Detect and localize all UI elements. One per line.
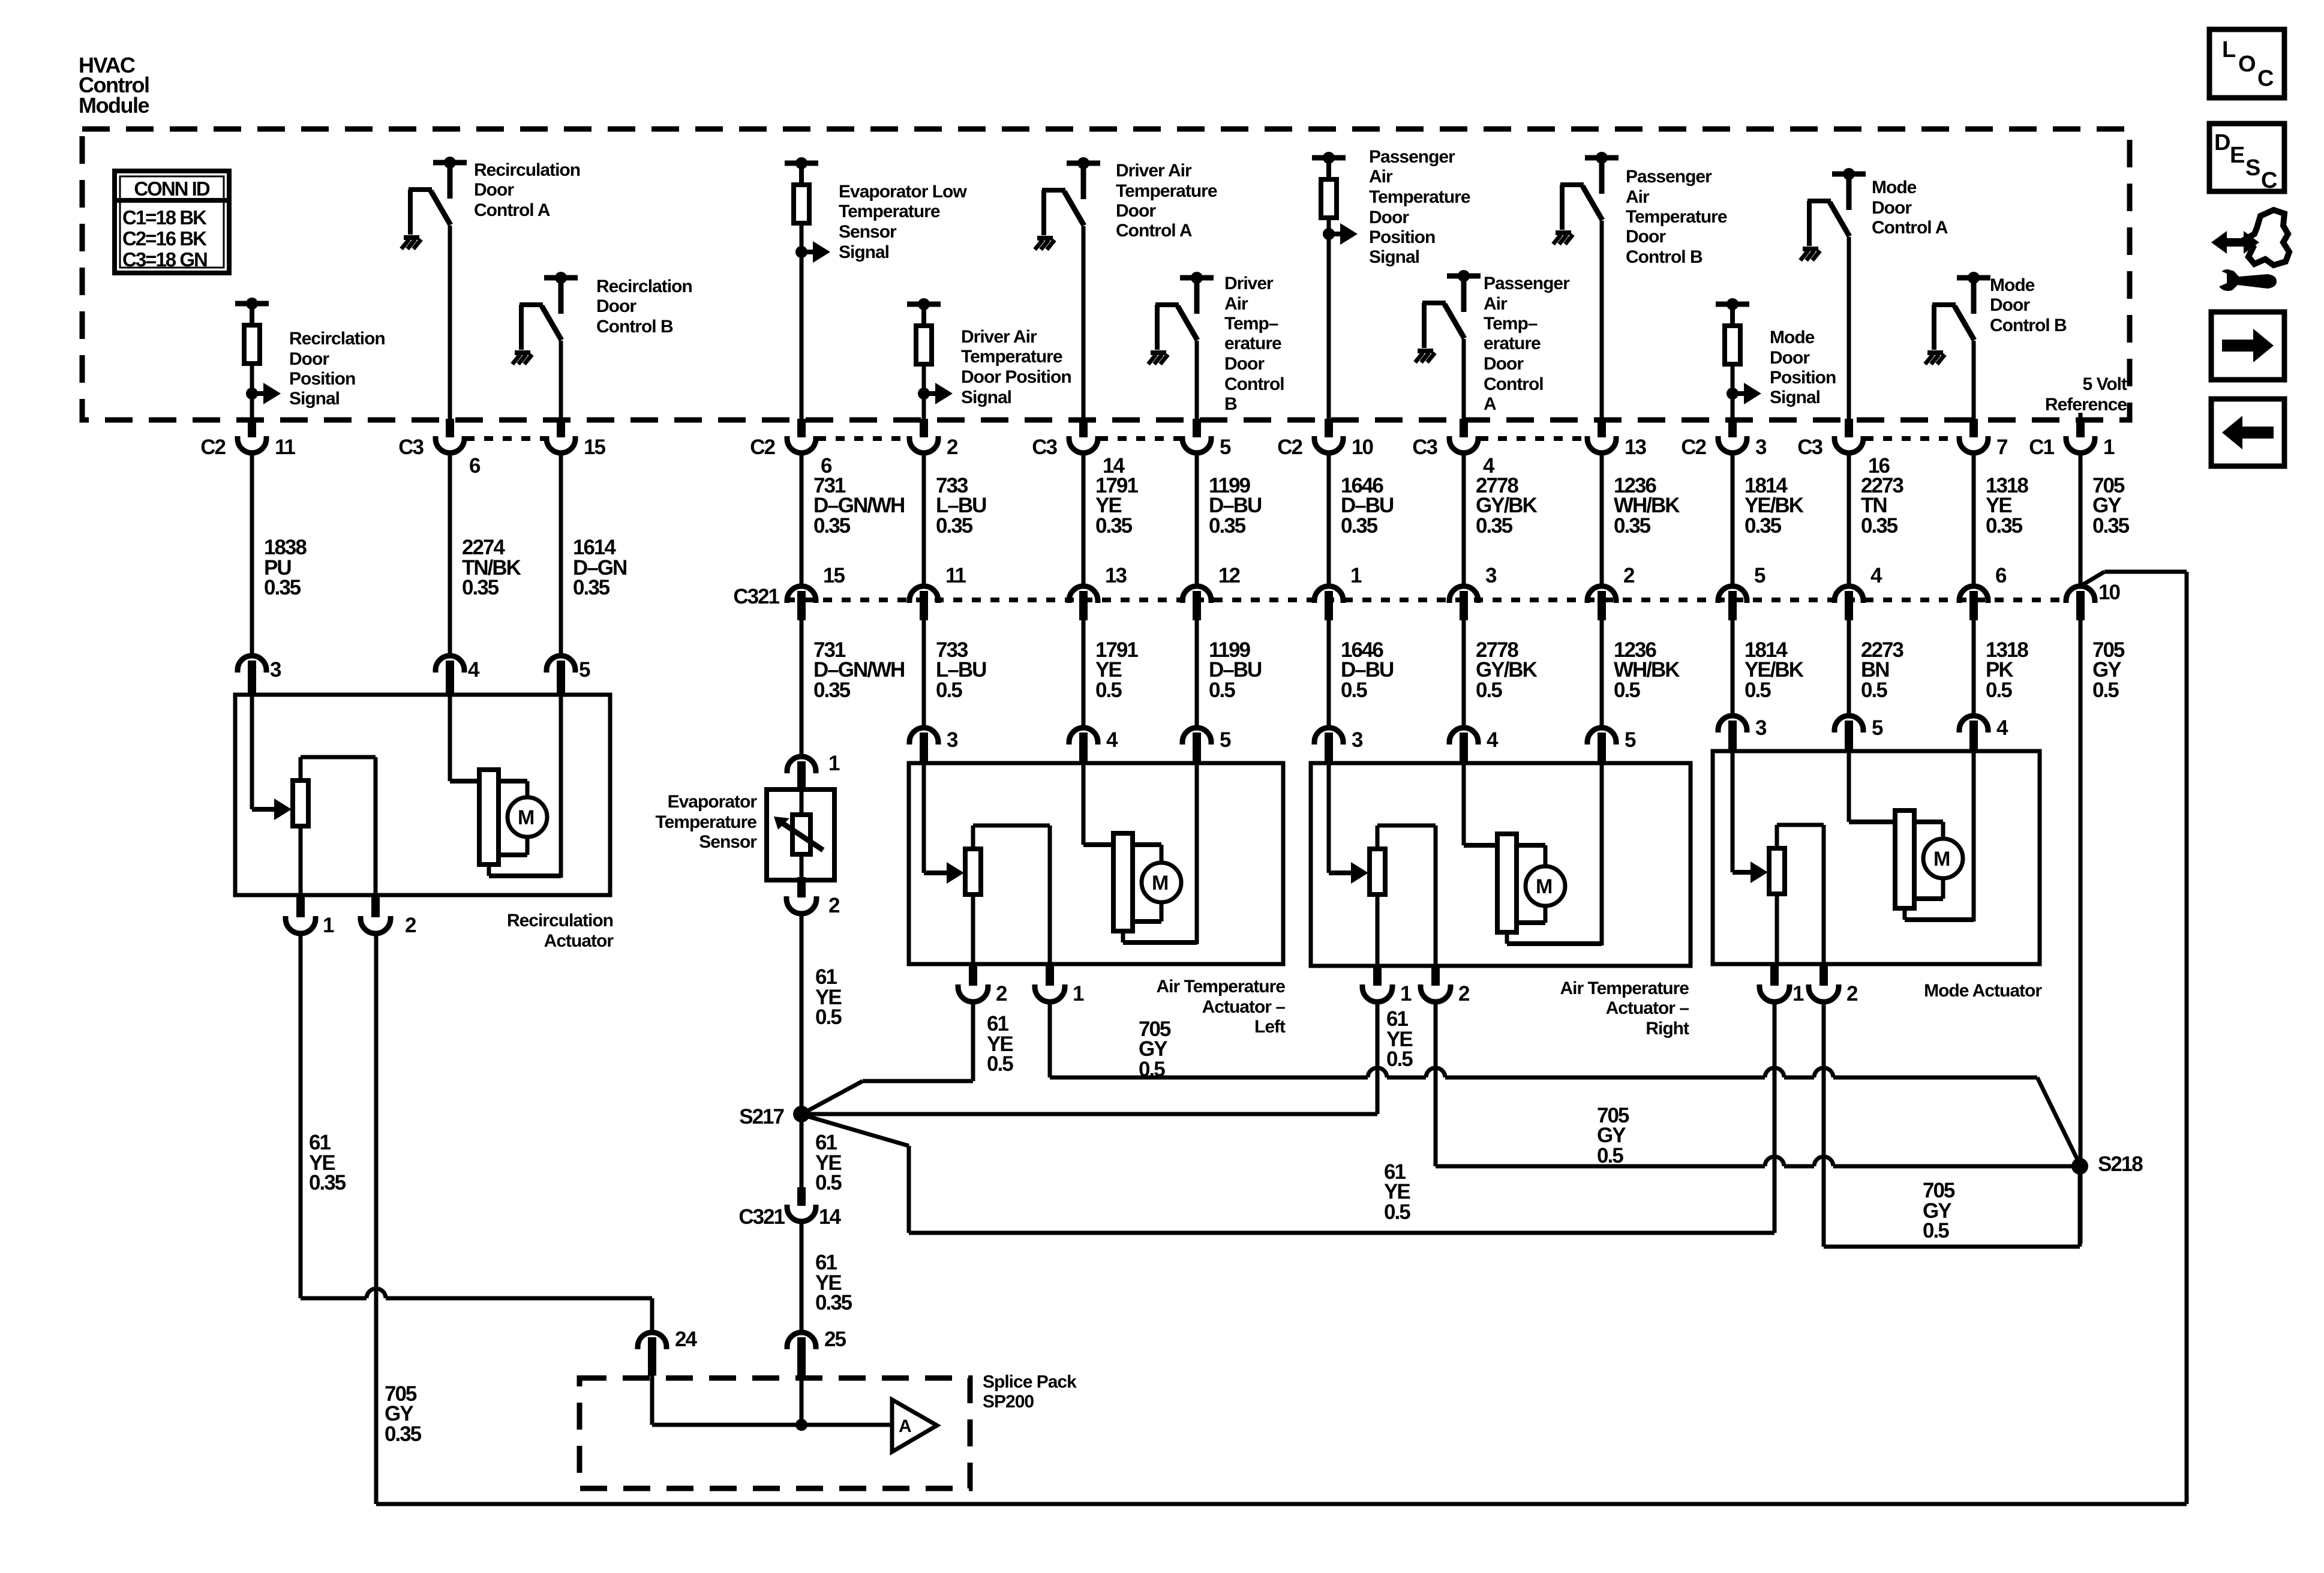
wire recirc pin1 to splice pack pin 24 (61 YE) with hop bbox=[301, 933, 652, 1334]
wire label 705 GY 0.5 (mode pin2) bbox=[1923, 1179, 1955, 1242]
wire label 1199 D–BU 0.5 (c7 lower) bbox=[1209, 638, 1262, 702]
C321 pin 13 (c6) bbox=[1069, 564, 1127, 620]
wire label 2274 TN/BK 0.35 (c2 upper) bbox=[462, 536, 521, 599]
connector pin C1 1 (row1 c14) bbox=[2029, 419, 2115, 459]
wire c11 to C321 bbox=[1731, 453, 1735, 587]
svg-text:Door: Door bbox=[1369, 208, 1409, 227]
wire c8 to C321 bbox=[1327, 453, 1331, 587]
svg-text:0.35: 0.35 bbox=[1614, 514, 1651, 538]
C321 pin 15 (c4) bbox=[787, 564, 845, 620]
mode actuator bottom pin 2 bbox=[1809, 965, 1858, 1005]
connector pin 2 (row1 c5) bbox=[909, 419, 958, 459]
svg-text:Control: Control bbox=[1484, 374, 1544, 394]
mode actuator pin 3 (c11) bbox=[1718, 716, 1767, 753]
wire c10 C321 to actuator pin bbox=[1600, 620, 1604, 729]
wire label 2778 GY/BK 0.35 (c9 upper) bbox=[1476, 474, 1538, 538]
svg-text:Mode: Mode bbox=[1872, 178, 1917, 197]
wire c8 C321 to actuator pin bbox=[1327, 620, 1331, 729]
svg-text:Door: Door bbox=[1626, 227, 1666, 247]
svg-text:Air: Air bbox=[1369, 167, 1393, 187]
wire c11 resistor to module edge bbox=[1731, 394, 1735, 422]
svg-text:Signal: Signal bbox=[839, 242, 889, 262]
svg-text:C: C bbox=[2257, 66, 2274, 91]
wire label 2273 BN 0.5 (c12 lower) bbox=[1861, 638, 1903, 702]
connector pin 15 (row1 c3) bbox=[547, 419, 605, 459]
wire label 731 D–GN/WH 0.35 (c4 upper) bbox=[813, 474, 904, 538]
svg-text:Temp–: Temp– bbox=[1484, 314, 1538, 334]
svg-text:Control B: Control B bbox=[1626, 247, 1703, 267]
svg-text:12: 12 bbox=[1218, 564, 1240, 587]
svg-text:0.5: 0.5 bbox=[1209, 679, 1235, 702]
evaporator sensor pin 2 bbox=[786, 877, 840, 917]
svg-text:2: 2 bbox=[1846, 982, 1858, 1005]
svg-text:Door: Door bbox=[596, 296, 636, 316]
svg-text:Mode Actuator: Mode Actuator bbox=[1924, 981, 2042, 1001]
svg-text:C321: C321 bbox=[738, 1205, 785, 1229]
svg-text:5: 5 bbox=[1754, 564, 1765, 587]
svg-text:24: 24 bbox=[675, 1328, 697, 1351]
C321 pin 12 (c7) bbox=[1182, 564, 1240, 620]
svg-text:E: E bbox=[2230, 143, 2245, 168]
svg-text:0.5: 0.5 bbox=[1476, 679, 1502, 702]
evaporator sensor pin 1 bbox=[787, 752, 840, 792]
switch: Passenger Air Temperature Door Control A driver (col9) bbox=[1415, 270, 1481, 362]
resistor: evaporator low temperature sensor signal (col4) bbox=[785, 157, 830, 263]
svg-text:Module: Module bbox=[79, 93, 149, 118]
svg-text:0.5: 0.5 bbox=[815, 1171, 842, 1194]
svg-text:4: 4 bbox=[1996, 716, 2008, 740]
svg-text:Control A: Control A bbox=[474, 200, 550, 220]
svg-text:SP200: SP200 bbox=[983, 1392, 1034, 1412]
svg-text:3: 3 bbox=[1755, 716, 1767, 740]
svg-text:0.35: 0.35 bbox=[1861, 514, 1898, 538]
splice S217 bbox=[739, 1105, 810, 1128]
svg-text:C3: C3 bbox=[1032, 436, 1057, 459]
label Air Temperature Actuator - Left bbox=[1156, 977, 1286, 1037]
svg-text:Air: Air bbox=[1224, 294, 1248, 314]
svg-text:erature: erature bbox=[1224, 334, 1281, 353]
wire c4 C321 to evaporator sensor pin 1 bbox=[800, 620, 804, 758]
svg-text:0.35: 0.35 bbox=[573, 576, 610, 599]
air temperature actuator pin 4 (c9) bbox=[1449, 728, 1499, 765]
air temperature actuator pin 5 (c10) bbox=[1587, 728, 1636, 765]
wire c5 C321 to actuator pin bbox=[922, 620, 926, 729]
svg-text:0.35: 0.35 bbox=[385, 1422, 422, 1446]
svg-text:0.35: 0.35 bbox=[815, 1291, 852, 1314]
wire c3 switch to module edge bbox=[559, 341, 563, 422]
connector pin C3 4 (row1 c9) bbox=[1412, 419, 1495, 478]
dashed connector link c6-c7 bbox=[1099, 436, 1181, 441]
Recirculation Actuator box and interior bbox=[235, 695, 610, 895]
wire label 61 YE 0.5 (evap to S217) bbox=[815, 965, 842, 1029]
svg-text:C2: C2 bbox=[200, 436, 226, 459]
Air Temperature Actuator Right box and interior bbox=[1311, 763, 1691, 966]
svg-text:2: 2 bbox=[996, 982, 1007, 1005]
C321 pin 2 (c10) bbox=[1587, 564, 1635, 620]
recirculation actuator pin 3 bbox=[238, 656, 281, 696]
label Mode Door Position Signal bbox=[1770, 328, 1836, 407]
svg-text:C2: C2 bbox=[1277, 436, 1302, 459]
wire label 1814 YE/BK 0.5 (c11 lower) bbox=[1744, 638, 1804, 702]
Air Temperature Actuator Left box and interior bbox=[909, 763, 1283, 964]
svg-text:Control A: Control A bbox=[1872, 218, 1948, 238]
label Evaporator Low Temperature Sensor Signal bbox=[839, 182, 967, 262]
svg-text:Driver Air: Driver Air bbox=[1116, 161, 1192, 181]
svg-text:4: 4 bbox=[1487, 728, 1499, 752]
wire c8 resistor to module edge bbox=[1327, 234, 1331, 422]
svg-text:3: 3 bbox=[947, 728, 958, 752]
svg-text:Signal: Signal bbox=[1770, 388, 1820, 407]
wire S217 down to C321-14 bbox=[800, 1114, 804, 1189]
svg-text:M: M bbox=[1536, 875, 1553, 898]
air temp actuator right bottom pin 1 bbox=[1362, 965, 1412, 1005]
wire c2 switch to module edge bbox=[448, 226, 452, 422]
svg-text:Temperature: Temperature bbox=[839, 202, 940, 221]
C321 pin 3 (c9) bbox=[1449, 564, 1497, 620]
icon wrench and arrows bbox=[2211, 210, 2289, 291]
svg-text:0.5: 0.5 bbox=[936, 679, 962, 702]
wire label 61 YE 0.5 (left pin2) bbox=[987, 1012, 1013, 1076]
svg-text:10: 10 bbox=[1352, 436, 1373, 459]
CONN ID table bbox=[115, 171, 229, 273]
svg-text:7: 7 bbox=[1996, 436, 2007, 459]
Mode Actuator box and interior bbox=[1713, 751, 2040, 964]
svg-text:Control B: Control B bbox=[596, 317, 673, 337]
svg-text:2: 2 bbox=[947, 436, 958, 459]
svg-text:Door: Door bbox=[1484, 354, 1524, 374]
svg-text:0.5: 0.5 bbox=[2092, 679, 2119, 702]
svg-text:Passenger: Passenger bbox=[1626, 167, 1712, 187]
svg-text:1: 1 bbox=[1350, 564, 1362, 587]
splice pack output triangle A bbox=[892, 1400, 937, 1452]
wire c7 switch to module edge bbox=[1195, 341, 1199, 422]
svg-text:Evaporator Low: Evaporator Low bbox=[839, 182, 967, 202]
recirculation actuator bottom pin 2 bbox=[361, 897, 416, 937]
wire label 1646 D–BU 0.5 (c8 lower) bbox=[1341, 638, 1394, 702]
svg-text:Door: Door bbox=[1872, 198, 1912, 218]
bus 705 GY from left pin1 to S218 with hops bbox=[1050, 1068, 2080, 1164]
Evaporator Temperature Sensor box bbox=[767, 789, 834, 880]
svg-text:Door: Door bbox=[289, 349, 329, 369]
svg-text:Actuator –: Actuator – bbox=[1606, 998, 1689, 1018]
svg-text:15: 15 bbox=[823, 564, 845, 587]
wire label 61 YE 0.5 (S217 down) bbox=[815, 1131, 842, 1194]
splice pack internal wires bbox=[652, 1374, 892, 1431]
svg-text:Air Temperature: Air Temperature bbox=[1156, 977, 1285, 996]
air temperature actuator pin 4 (c6) bbox=[1069, 728, 1118, 765]
svg-text:13: 13 bbox=[1625, 436, 1646, 459]
wire c6 to C321 bbox=[1082, 453, 1086, 587]
svg-text:0.35: 0.35 bbox=[1986, 514, 2023, 538]
wire c5 to C321 bbox=[922, 453, 926, 587]
switch: Driver Air Temperature Door Control A driver (col6) bbox=[1035, 157, 1100, 250]
svg-text:2: 2 bbox=[405, 914, 416, 937]
svg-text:Mode: Mode bbox=[1990, 275, 2035, 295]
connector pin 7 (row1 c13) bbox=[1959, 419, 2007, 459]
wire c5 resistor to module edge bbox=[922, 394, 926, 422]
svg-text:11: 11 bbox=[275, 436, 296, 459]
svg-text:11: 11 bbox=[945, 564, 966, 587]
svg-text:Recirculation: Recirculation bbox=[474, 160, 580, 180]
wire c13 C321 to mode actuator pin bbox=[1972, 620, 1976, 717]
svg-text:15: 15 bbox=[584, 436, 605, 459]
svg-text:Recirculation: Recirculation bbox=[507, 911, 613, 930]
svg-text:0.5: 0.5 bbox=[1095, 679, 1122, 702]
svg-text:6: 6 bbox=[1995, 564, 2007, 587]
dashed connector link c9-c10 bbox=[1479, 436, 1586, 441]
wire recirc pin2 to right riser (705 GY) bbox=[376, 572, 2187, 1504]
svg-text:C3: C3 bbox=[1797, 436, 1822, 459]
svg-text:Position: Position bbox=[1770, 368, 1836, 388]
wire label 61 YE 0.5 (right pin1) bbox=[1386, 1007, 1413, 1071]
wire c9 to C321 bbox=[1462, 453, 1466, 587]
air temperature actuator pin 3 (c5) bbox=[909, 728, 958, 765]
wire label 1791 YE 0.35 (c6 upper) bbox=[1095, 474, 1138, 538]
dashed connector link c4-c5 bbox=[817, 436, 908, 441]
svg-text:M: M bbox=[1933, 848, 1950, 870]
svg-text:3: 3 bbox=[1755, 436, 1767, 459]
svg-text:3: 3 bbox=[1352, 728, 1363, 752]
svg-text:1: 1 bbox=[2103, 436, 2115, 459]
wire c14 5V ref to module edge bbox=[2079, 413, 2083, 422]
svg-text:Recirclation: Recirclation bbox=[289, 329, 385, 349]
svg-text:5: 5 bbox=[1220, 728, 1231, 752]
wire c3 to recirculation actuator pin bbox=[559, 453, 563, 657]
switch: Mode Door Control A driver (col12) bbox=[1800, 168, 1866, 260]
switch: Driver Air Temperature Door Control B driver (col7) bbox=[1148, 272, 1214, 364]
wire label 1791 YE 0.5 (c6 lower) bbox=[1095, 638, 1138, 702]
label 5 Volt Reference bbox=[2045, 374, 2127, 415]
splice pack pin 24 bbox=[638, 1328, 697, 1376]
svg-text:Mode: Mode bbox=[1770, 328, 1815, 347]
wire mode pin2 to S218 (705 GY) bbox=[1824, 1001, 2080, 1247]
svg-text:Sensor: Sensor bbox=[699, 832, 757, 852]
wire label 2778 GY/BK 0.5 (c9 lower) bbox=[1476, 638, 1538, 702]
svg-text:O: O bbox=[2238, 52, 2256, 77]
svg-text:S: S bbox=[2245, 155, 2260, 181]
wire S217 diagonal to 61 YE bus to mode pin1 bbox=[804, 1001, 1774, 1233]
wire c7 C321 to actuator pin bbox=[1195, 620, 1199, 729]
svg-text:0.35: 0.35 bbox=[309, 1171, 346, 1194]
wire c4 resistor to module edge bbox=[800, 252, 804, 422]
svg-text:1: 1 bbox=[1073, 982, 1084, 1005]
label Passenger Air Temperature Door Control A bbox=[1484, 274, 1570, 414]
svg-text:4: 4 bbox=[1106, 728, 1118, 752]
svg-text:5 Volt: 5 Volt bbox=[2083, 374, 2127, 394]
icon box arrow left bbox=[2211, 399, 2284, 466]
wire c11 C321 to mode actuator pin bbox=[1731, 620, 1735, 717]
label Recirclation Door Position Signal bbox=[289, 329, 385, 409]
wire label 1814 YE/BK 0.35 (c11 upper) bbox=[1744, 474, 1804, 538]
C321 pin 1 (c8) bbox=[1314, 564, 1362, 620]
connector pin 13 (row1 c10) bbox=[1587, 419, 1646, 459]
svg-text:Air Temperature: Air Temperature bbox=[1560, 978, 1689, 998]
label Air Temperature Actuator - Right bbox=[1560, 978, 1689, 1038]
svg-text:Signal: Signal bbox=[961, 388, 1011, 407]
wire left actuator pin2 to S217 bus (61 YE) bbox=[804, 1001, 973, 1113]
switch: Recirculation Door Control A driver (col2) bbox=[401, 157, 467, 249]
svg-text:Temperature: Temperature bbox=[1626, 207, 1727, 227]
svg-text:0.5: 0.5 bbox=[1861, 679, 1887, 702]
wire label 705 GY 0.5 (left pin1) bbox=[1139, 1017, 1171, 1081]
label Recirclation Door Control B bbox=[596, 277, 692, 337]
icon box arrow right bbox=[2211, 312, 2284, 380]
wire label 61 YE 0.35 (recirc pin1) bbox=[309, 1131, 346, 1194]
svg-text:Signal: Signal bbox=[289, 389, 340, 409]
svg-text:1: 1 bbox=[323, 914, 334, 937]
svg-text:4: 4 bbox=[1870, 564, 1882, 587]
wire label 61 YE 0.35 (below C321-14) bbox=[815, 1251, 852, 1314]
wire c10 to C321 bbox=[1600, 453, 1604, 587]
HVAC Control Module dashed box bbox=[82, 129, 2130, 420]
air temp actuator right bottom pin 2 bbox=[1421, 965, 1470, 1005]
svg-text:4: 4 bbox=[468, 658, 480, 682]
svg-text:C3=18 GN: C3=18 GN bbox=[122, 248, 207, 271]
svg-text:L: L bbox=[2222, 37, 2236, 62]
label Mode Actuator bbox=[1924, 981, 2042, 1001]
switch: Passenger Air Temperature Door Control B driver (col10) bbox=[1553, 152, 1619, 244]
label Evaporator Temperature Sensor bbox=[655, 792, 757, 852]
svg-text:Door: Door bbox=[1990, 295, 2030, 315]
wire label 705 GY 0.35 (c14 upper) bbox=[2092, 474, 2130, 538]
svg-text:C321: C321 bbox=[733, 585, 779, 608]
C321 pin 10 (c14) bbox=[2066, 581, 2120, 620]
svg-text:0.35: 0.35 bbox=[1341, 514, 1378, 538]
recirculation actuator pin 5 bbox=[547, 656, 590, 696]
wire c13 switch to module edge bbox=[1972, 341, 1976, 422]
svg-text:0.5: 0.5 bbox=[1923, 1219, 1949, 1242]
mode actuator pin 4 (c13) bbox=[1959, 716, 2008, 753]
svg-text:C2=16 BK: C2=16 BK bbox=[122, 227, 207, 250]
svg-text:0.5: 0.5 bbox=[987, 1052, 1013, 1076]
wire c6 C321 to actuator pin bbox=[1082, 620, 1086, 729]
svg-text:Driver Air: Driver Air bbox=[961, 327, 1037, 347]
svg-text:C3: C3 bbox=[1412, 436, 1437, 459]
HVAC Control Module label bbox=[79, 53, 149, 118]
svg-text:6: 6 bbox=[469, 454, 481, 478]
svg-text:14: 14 bbox=[819, 1205, 841, 1229]
svg-text:Splice Pack: Splice Pack bbox=[983, 1372, 1077, 1392]
switch: Mode Door Control B driver (col13) bbox=[1925, 272, 1990, 364]
svg-text:S218: S218 bbox=[2098, 1152, 2143, 1176]
svg-text:0.35: 0.35 bbox=[462, 576, 499, 599]
resistor: driver air temperature door position signal (col5) bbox=[907, 298, 953, 404]
svg-text:2: 2 bbox=[828, 894, 840, 917]
svg-text:0.35: 0.35 bbox=[2092, 514, 2130, 538]
svg-text:Actuator: Actuator bbox=[544, 931, 614, 951]
label Driver Air Temperature Door Control B bbox=[1224, 274, 1284, 414]
svg-text:CONN ID: CONN ID bbox=[134, 178, 210, 200]
label Driver Air Temperature Door Control A bbox=[1116, 161, 1217, 241]
wire c4 to C321 bbox=[800, 453, 804, 587]
wire label 731 D–GN/WH 0.35 (c4 lower) bbox=[813, 638, 904, 702]
C321 pin 14 bbox=[738, 1187, 841, 1229]
splice S218 bbox=[2071, 1152, 2143, 1176]
svg-text:C2: C2 bbox=[750, 436, 775, 459]
svg-text:Temp–: Temp– bbox=[1224, 314, 1278, 334]
connector pin C2 3 (row1 c11) bbox=[1681, 419, 1767, 459]
C321 pin 11 (c5) bbox=[909, 564, 966, 620]
svg-text:0.35: 0.35 bbox=[813, 679, 851, 702]
svg-text:Signal: Signal bbox=[1369, 247, 1419, 267]
recirculation actuator bottom pin 1 bbox=[286, 897, 334, 937]
svg-text:0.35: 0.35 bbox=[264, 576, 301, 599]
wire label 1614 D–GN 0.35 (c3 upper) bbox=[573, 536, 626, 599]
wire c10 switch to module edge bbox=[1600, 221, 1604, 422]
connector pin C2 11 (row1 c1) bbox=[200, 419, 295, 459]
svg-text:Evaporator: Evaporator bbox=[668, 792, 758, 812]
svg-text:Passenger: Passenger bbox=[1369, 147, 1455, 167]
label Recirculation Actuator bbox=[507, 911, 614, 951]
svg-text:S217: S217 bbox=[739, 1105, 783, 1128]
wire right actuator pin2 to S218 (705 GY) with hops bbox=[1436, 1001, 2080, 1166]
svg-text:Air: Air bbox=[1626, 187, 1650, 207]
C321 label bbox=[733, 585, 779, 608]
svg-text:Door: Door bbox=[1770, 348, 1810, 368]
resistor: passenger air temperature door position signal (col8) bbox=[1312, 152, 1358, 245]
air temp actuator left bottom pin 2 bbox=[958, 965, 1007, 1005]
C321 pin 5 (c11) bbox=[1718, 564, 1765, 620]
svg-text:C1=18 BK: C1=18 BK bbox=[122, 206, 207, 229]
svg-text:Door: Door bbox=[474, 180, 514, 200]
svg-text:Door: Door bbox=[1116, 201, 1156, 221]
svg-text:0.5: 0.5 bbox=[815, 1005, 842, 1029]
mode actuator bottom pin 1 bbox=[1759, 965, 1804, 1005]
Splice Pack SP200 dashed box bbox=[580, 1378, 970, 1488]
svg-text:0.35: 0.35 bbox=[1744, 514, 1782, 538]
wire c1 resistor to module edge bbox=[250, 394, 254, 422]
connector pin C3 14 (row1 c6) bbox=[1032, 419, 1125, 478]
svg-text:0.5: 0.5 bbox=[1986, 679, 2012, 702]
wire c1 to recirculation actuator pin bbox=[250, 453, 254, 657]
svg-text:0.35: 0.35 bbox=[813, 514, 851, 538]
dashed connector link c2-c3 bbox=[466, 436, 545, 441]
svg-text:Air: Air bbox=[1484, 294, 1508, 314]
wire c9 switch to module edge bbox=[1462, 339, 1466, 422]
svg-text:0.5: 0.5 bbox=[1597, 1144, 1623, 1167]
svg-text:M: M bbox=[1152, 872, 1169, 894]
wire label 1646 D–BU 0.35 (c8 upper) bbox=[1341, 474, 1394, 538]
svg-text:C3: C3 bbox=[398, 436, 424, 459]
wire c14 C321-10 down to S218 bbox=[2079, 620, 2083, 1244]
wire c6 switch to module edge bbox=[1082, 226, 1086, 422]
svg-text:0.5: 0.5 bbox=[1386, 1047, 1413, 1071]
C321 dashed line bbox=[786, 598, 2065, 602]
wire c12 to C321 bbox=[1847, 453, 1851, 587]
wire c7 to C321 bbox=[1195, 453, 1199, 587]
wire c12 switch to module edge bbox=[1847, 237, 1851, 422]
svg-text:C: C bbox=[2261, 168, 2277, 193]
connector pin C2 10 (row1 c8) bbox=[1277, 419, 1373, 459]
wire label 1318 PK 0.5 (c13 lower) bbox=[1986, 638, 2028, 702]
svg-text:Reference: Reference bbox=[2045, 395, 2127, 415]
splice pack pin 25 bbox=[787, 1328, 846, 1376]
switch: Recirclation Door Control B driver (col3) bbox=[512, 272, 578, 364]
air temperature actuator pin 3 (c8) bbox=[1314, 728, 1363, 765]
svg-text:2: 2 bbox=[1458, 982, 1470, 1005]
svg-text:3: 3 bbox=[1485, 564, 1497, 587]
recirculation actuator pin 4 bbox=[436, 656, 480, 696]
wire label 705 GY 0.5 (mid bus) bbox=[1597, 1104, 1629, 1167]
wire label 1236 WH/BK 0.5 (c10 lower) bbox=[1614, 638, 1680, 702]
svg-text:erature: erature bbox=[1484, 334, 1541, 353]
connector pin C3 6 (row1 c2) bbox=[398, 419, 481, 478]
connector pin 5 (row1 c7) bbox=[1182, 419, 1231, 459]
svg-text:0.5: 0.5 bbox=[1614, 679, 1640, 702]
svg-text:Temperature: Temperature bbox=[655, 812, 756, 832]
svg-text:Right: Right bbox=[1646, 1019, 1689, 1038]
svg-text:Temperature: Temperature bbox=[1116, 181, 1217, 201]
